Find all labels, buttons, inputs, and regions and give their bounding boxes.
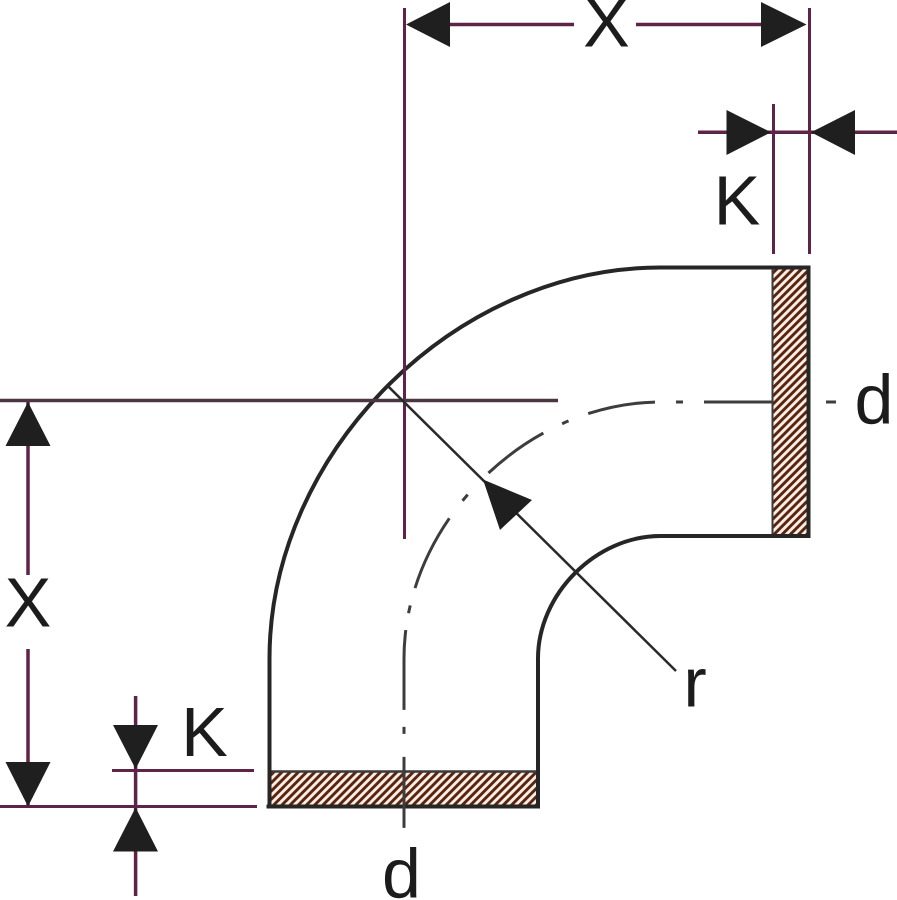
socket hatch right boundary bbox=[772, 268, 774, 537]
svg-text:d: d bbox=[382, 835, 421, 900]
socket hatch right bbox=[773, 268, 807, 537]
arrow X top left bbox=[406, 2, 450, 47]
extension line top X left (vertical) bbox=[403, 8, 406, 539]
pipe bottom end face bbox=[267, 805, 541, 809]
arrow X left up bbox=[6, 402, 51, 446]
centerline arc dash-dot bbox=[404, 402, 772, 828]
dimension line X left bbox=[26, 402, 30, 575]
extension line top X right / K right (vertical) bbox=[808, 8, 811, 254]
arrow X top right bbox=[761, 2, 807, 47]
svg-text:K: K bbox=[181, 693, 228, 771]
extension line K top (vertical) bbox=[772, 104, 775, 254]
pipe right end face bbox=[807, 266, 811, 539]
svg-text:K: K bbox=[714, 162, 761, 240]
arrow K top pointing right bbox=[727, 110, 772, 155]
pipe outer wall bbox=[270, 268, 809, 807]
dimension line K bottom bbox=[134, 696, 138, 896]
svg-text:d: d bbox=[855, 361, 894, 439]
arrow X left down bbox=[6, 762, 51, 807]
centerline dash right of face bbox=[826, 401, 836, 404]
extension line left X bottom (horizontal purple) bbox=[0, 805, 257, 808]
extension line left X top (horizontal) bbox=[0, 399, 558, 403]
socket hatch bottom boundary bbox=[269, 770, 539, 773]
svg-text:r: r bbox=[683, 644, 706, 722]
arrow K bottom pointing down bbox=[113, 725, 158, 769]
arrow K top pointing left bbox=[811, 110, 855, 155]
pipe inner wall bbox=[538, 536, 809, 807]
svg-text:X: X bbox=[583, 0, 630, 62]
arrow K bottom pointing up bbox=[113, 808, 158, 852]
radius arrow bbox=[483, 480, 532, 531]
dimension line K top tails bbox=[698, 131, 897, 135]
radius leader line r bbox=[387, 385, 676, 671]
dimension line X top bbox=[450, 23, 574, 27]
svg-text:X: X bbox=[5, 564, 52, 642]
extension line K bottom (horizontal) bbox=[112, 769, 254, 772]
socket hatch bottom bbox=[269, 772, 539, 805]
